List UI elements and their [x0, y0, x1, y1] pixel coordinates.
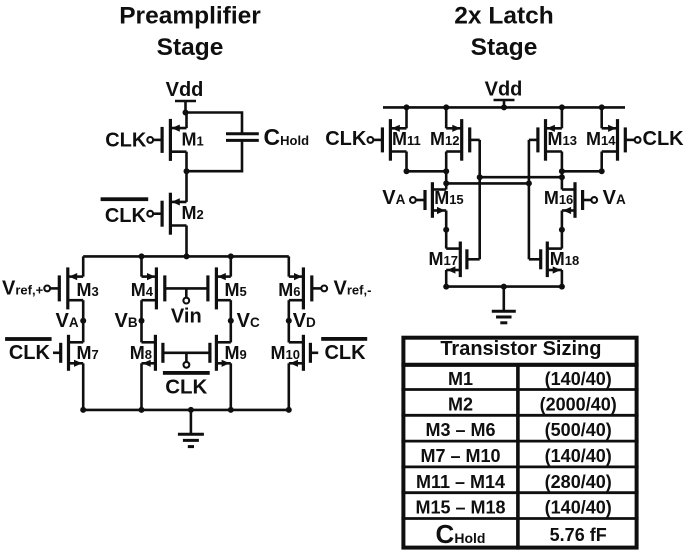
wire lower cross-couple	[446, 182, 529, 185]
wire cross vertical right (M13/M18 gates)	[528, 140, 531, 259]
svg-text:M1: M1	[448, 369, 473, 389]
junction rail M14	[599, 104, 605, 110]
node Vin gate structure	[165, 288, 208, 303]
table row line 3	[401, 440, 638, 443]
junction rail-M5	[228, 253, 234, 259]
junction bottom rail M9	[228, 407, 234, 413]
label CLKbar (M10 gate)	[321, 337, 367, 364]
svg-text:M15 – M18: M15 – M18	[415, 498, 505, 518]
wire M11 drain down	[405, 152, 408, 172]
wire rail to M5 source	[230, 256, 233, 276]
wire M18 drain to latch bottom rail	[561, 270, 564, 287]
power Vdd (preamp)	[166, 79, 204, 113]
table header separator	[401, 363, 638, 367]
junction node VD	[286, 318, 292, 324]
svg-text:CLK: CLK	[165, 376, 207, 399]
wire M17 drain to latch bottom rail	[445, 270, 448, 287]
wire preamp top rail	[83, 255, 289, 258]
wire right output node horizontal	[562, 170, 602, 173]
wire rail corner to M3 source	[82, 256, 85, 276]
table row line 4	[401, 465, 638, 468]
svg-text:CLK: CLK	[324, 342, 366, 364]
wire rail to M13 source	[561, 107, 564, 128]
wire M12 drain down	[445, 152, 448, 172]
transistor M1	[147, 119, 203, 161]
ground	[492, 287, 516, 323]
wire rail to M12 source	[445, 107, 448, 128]
junction bottom rail left end	[80, 407, 86, 413]
wire M8 drain to bottom rail	[140, 363, 143, 410]
junction bottom rail ground	[188, 407, 194, 413]
transistor M2	[147, 193, 203, 235]
wire M16 drain to M18 source	[561, 211, 564, 249]
wire M10 gate to CLKbar	[310, 351, 318, 354]
junction M15-M17	[443, 227, 449, 233]
svg-text:Transistor Sizing: Transistor Sizing	[440, 338, 601, 360]
wire rail to M11 source	[405, 107, 408, 128]
svg-text:2x Latch: 2x Latch	[454, 3, 553, 30]
wire M13 drain down	[561, 152, 564, 172]
wire M2 drain to diff-pair rail	[185, 226, 188, 257]
junction bottom rail M8	[139, 407, 145, 413]
junction Vdd node	[183, 110, 189, 116]
svg-text:Stage: Stage	[157, 34, 224, 61]
wire M9 drain to bottom rail	[230, 363, 233, 410]
svg-text:(140/40): (140/40)	[545, 446, 612, 466]
node VB wire	[140, 300, 143, 342]
junction rail M12	[443, 104, 449, 110]
junction M1-M2 node	[184, 168, 190, 174]
table Transistor Sizing frame	[403, 338, 636, 548]
transistor M8	[130, 335, 163, 371]
junction node VA	[80, 318, 86, 324]
svg-text:CLK: CLK	[105, 130, 147, 152]
junction rail M13	[559, 104, 565, 110]
wire M10 drain to bottom rail	[287, 363, 290, 410]
wire right node to M16 source	[561, 171, 564, 189]
junction lower cross left	[443, 180, 449, 186]
transistor M9	[210, 335, 247, 371]
table row M2 value (2000/40)	[448, 394, 617, 414]
junction rail-M4	[139, 253, 145, 259]
table row M1 value (140/40)	[448, 369, 612, 389]
transistor M18	[541, 242, 580, 278]
wire rail to M14 source	[600, 107, 603, 128]
wire M17 gate to cross vertical	[467, 258, 480, 261]
table row line 1	[401, 388, 638, 391]
junction right node M14	[599, 168, 605, 174]
wire M14 drain down	[600, 152, 603, 172]
wire latch top rail	[383, 106, 625, 109]
svg-text:CLK: CLK	[643, 128, 685, 150]
wire left node to M15 source	[445, 171, 448, 189]
svg-text:M3 – M6: M3 – M6	[425, 420, 495, 440]
wire M18 gate to cross vertical	[529, 258, 541, 261]
wire M7 drain to bottom rail	[82, 363, 85, 410]
svg-text:(140/40): (140/40)	[545, 498, 612, 518]
wire cross vertical left (M12/M17 gates)	[478, 140, 481, 259]
table row M3 – M6 value (500/40)	[425, 420, 611, 440]
junction latch rail ground	[501, 284, 507, 290]
wire capacitor bottom to M1 drain node	[187, 140, 243, 171]
transistor M11	[368, 119, 421, 161]
wire M13 gate to cross vertical	[529, 139, 538, 142]
svg-text:(500/40): (500/40)	[545, 420, 612, 440]
wire M12 gate to cross vertical	[470, 139, 480, 142]
svg-text:Vdd: Vdd	[166, 79, 204, 101]
wire rail corner to M6 source	[287, 256, 290, 276]
transistor M4	[131, 267, 165, 309]
wire CLKbar to M7 gate	[53, 351, 61, 354]
transistor M14	[586, 119, 640, 161]
table column divider	[516, 365, 520, 550]
junction latch rail left	[443, 284, 449, 290]
label CLKbar (M7 gate)	[5, 337, 52, 364]
svg-text:CLK: CLK	[325, 128, 367, 150]
wire upper cross-couple	[480, 176, 562, 179]
junction rail M11	[404, 104, 410, 110]
svg-text:Preamplifier: Preamplifier	[119, 3, 261, 30]
power Vdd (latch)	[485, 78, 523, 107]
svg-text:Vdd: Vdd	[485, 78, 523, 100]
junction left node M12	[443, 168, 449, 174]
transistor M17	[429, 242, 467, 278]
junction node VC	[228, 318, 234, 324]
svg-text:5.76 fF: 5.76 fF	[550, 525, 607, 545]
svg-text:M7 – M10: M7 – M10	[420, 446, 500, 466]
junction left node M11	[404, 168, 410, 174]
table row line 5	[401, 491, 638, 494]
table row line 2	[401, 414, 638, 417]
junction bottom rail right end	[286, 407, 292, 413]
wire preamp bottom rail	[83, 409, 289, 412]
svg-text:CLK: CLK	[9, 342, 51, 364]
node VC wire	[230, 300, 233, 342]
junction upper cross left	[477, 174, 483, 180]
wire latch bottom rail	[446, 285, 562, 288]
table row M7 – M10 value (140/40)	[420, 446, 611, 466]
junction upper cross right	[559, 174, 565, 180]
wire M1 source to Vdd node	[185, 113, 188, 129]
ground	[178, 410, 204, 447]
svg-text:(2000/40): (2000/40)	[540, 394, 617, 414]
junction rail Vdd	[501, 104, 507, 110]
transistor M10	[271, 335, 311, 371]
label CLKbar (mid)	[163, 371, 210, 399]
svg-text:(140/40): (140/40)	[545, 369, 612, 389]
transistor M12	[430, 119, 470, 161]
capacitor CHold	[226, 134, 259, 141]
junction M16-M18	[559, 227, 565, 233]
wire rail to M4 source	[140, 256, 143, 276]
label CLKbar (M2 gate)	[101, 197, 149, 227]
junction node VB	[139, 318, 145, 324]
node VD wire	[287, 300, 290, 342]
node CLKbar mid gate structure (M8 M9)	[163, 353, 210, 368]
junction rail-M2	[184, 253, 190, 259]
table row line 6	[401, 517, 638, 520]
svg-text:CLK: CLK	[105, 205, 147, 227]
junction right node M13	[559, 168, 565, 174]
transistor M6	[278, 267, 327, 309]
svg-text:Vin: Vin	[171, 306, 202, 328]
svg-text:M11 – M14: M11 – M14	[416, 472, 505, 492]
title 2x Latch Stage	[454, 3, 553, 62]
transistor M5	[208, 267, 247, 309]
table row CHold value 5.76 fF	[436, 519, 607, 549]
wire M1 drain to M2 source	[185, 152, 188, 202]
transistor M13	[538, 119, 577, 161]
table row M11 – M14 value (280/40)	[416, 472, 612, 492]
wire M15 drain to M17 source	[445, 211, 448, 249]
transistor M7	[61, 335, 99, 371]
transistor M16	[544, 182, 597, 218]
wire Vdd node to capacitor top	[186, 113, 243, 134]
junction latch rail right	[559, 284, 565, 290]
junction lower cross right	[526, 180, 532, 186]
title Preamplifier Stage	[119, 3, 261, 62]
transistor M15	[410, 182, 464, 218]
svg-text:Stage: Stage	[471, 34, 538, 61]
node VA wire	[82, 300, 85, 342]
wire left output node horizontal	[407, 170, 447, 173]
table row M15 – M18 value (140/40)	[415, 498, 611, 518]
svg-text:(280/40): (280/40)	[545, 472, 612, 492]
svg-text:M2: M2	[448, 394, 473, 414]
transistor M3	[44, 267, 98, 309]
